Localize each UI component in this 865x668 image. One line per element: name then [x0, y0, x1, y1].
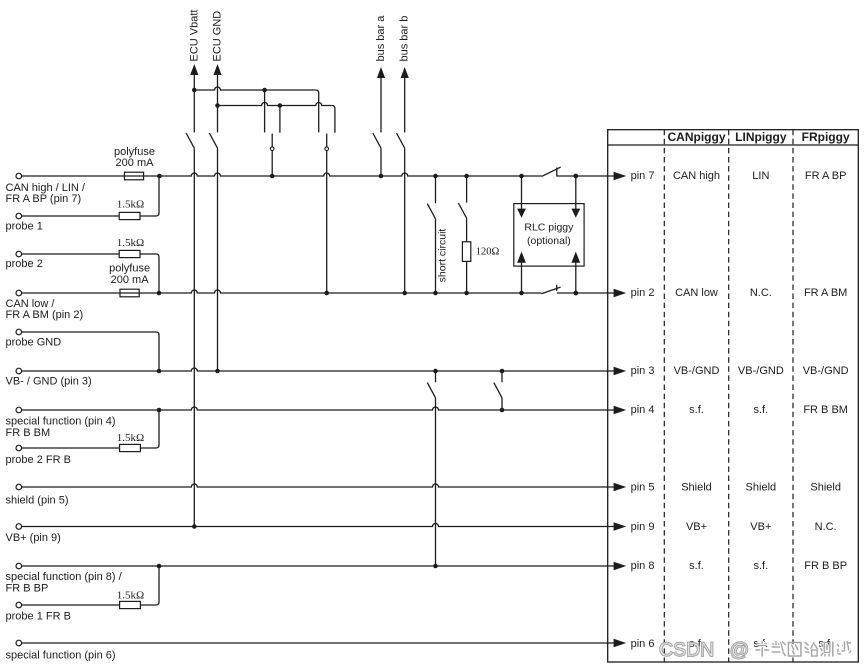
- svg-text:CAN low: CAN low: [675, 287, 718, 299]
- svg-text:s.f.: s.f.: [689, 560, 704, 572]
- svg-text:VB+ (pin 9): VB+ (pin 9): [6, 532, 61, 544]
- svg-text:special function (pin 8) /: special function (pin 8) /: [6, 571, 123, 583]
- svg-text:special function (pin 6): special function (pin 6): [6, 650, 116, 662]
- svg-text:@: @: [730, 639, 750, 661]
- svg-text:VB+: VB+: [750, 521, 771, 533]
- svg-text:bus bar b: bus bar b: [399, 16, 411, 62]
- svg-text:ECU Vbatt: ECU Vbatt: [188, 10, 200, 62]
- svg-text:N.C.: N.C.: [815, 521, 837, 533]
- svg-text:ECU GND: ECU GND: [212, 11, 224, 62]
- svg-text:probe 1: probe 1: [6, 220, 43, 232]
- svg-text:s.f.: s.f.: [689, 404, 704, 416]
- svg-text:200 mA: 200 mA: [111, 274, 150, 286]
- svg-text:s.f.: s.f.: [754, 404, 769, 416]
- svg-text:1.5kΩ: 1.5kΩ: [117, 237, 144, 249]
- svg-text:pin 9: pin 9: [631, 521, 655, 533]
- svg-text:pin 5: pin 5: [631, 482, 655, 494]
- svg-text:probe GND: probe GND: [6, 337, 62, 349]
- svg-text:VB-/GND: VB-/GND: [674, 365, 720, 377]
- svg-text:polyfuse: polyfuse: [114, 146, 155, 158]
- svg-text:LIN: LIN: [752, 170, 769, 182]
- svg-text:200 mA: 200 mA: [116, 157, 155, 169]
- svg-text:LINpiggy: LINpiggy: [735, 130, 787, 144]
- svg-text:FR A BP (pin 7): FR A BP (pin 7): [6, 193, 82, 205]
- svg-text:probe 1 FR B: probe 1 FR B: [6, 611, 71, 623]
- svg-text:VB+: VB+: [686, 521, 707, 533]
- svg-text:FR A BM (pin 2): FR A BM (pin 2): [6, 309, 84, 321]
- svg-text:N.C.: N.C.: [750, 287, 772, 299]
- svg-text:pin 2: pin 2: [631, 287, 655, 299]
- svg-text:(optional): (optional): [527, 235, 571, 247]
- svg-text:1.5kΩ: 1.5kΩ: [117, 432, 144, 444]
- svg-text:120Ω: 120Ω: [476, 246, 500, 257]
- svg-text:CSDN: CSDN: [659, 639, 714, 661]
- svg-text:Shield: Shield: [810, 482, 841, 494]
- svg-text:Shield: Shield: [746, 482, 777, 494]
- svg-text:VB-/GND: VB-/GND: [738, 365, 784, 377]
- svg-text:s.f.: s.f.: [754, 560, 769, 572]
- svg-text:FR B BP: FR B BP: [6, 582, 49, 594]
- svg-text:bus bar a: bus bar a: [375, 15, 387, 62]
- svg-text:FR A BM: FR A BM: [804, 287, 847, 299]
- svg-text:short circuit: short circuit: [437, 229, 449, 283]
- svg-text:Shield: Shield: [681, 482, 712, 494]
- svg-text:probe 2: probe 2: [6, 258, 43, 270]
- svg-text:pin 8: pin 8: [631, 560, 655, 572]
- svg-text:FR B BP: FR B BP: [804, 560, 847, 572]
- svg-text:FR B BM: FR B BM: [803, 404, 848, 416]
- svg-text:pin 3: pin 3: [631, 365, 655, 377]
- svg-text:CANpiggy: CANpiggy: [668, 130, 726, 144]
- svg-text:probe 2 FR B: probe 2 FR B: [6, 454, 71, 466]
- svg-text:polyfuse: polyfuse: [109, 263, 150, 275]
- svg-text:shield (pin 5): shield (pin 5): [6, 494, 69, 506]
- svg-text:FR B BM: FR B BM: [6, 427, 51, 439]
- svg-text:RLC piggy: RLC piggy: [524, 221, 574, 233]
- svg-text:pin 6: pin 6: [631, 638, 655, 650]
- svg-text:1.5kΩ: 1.5kΩ: [117, 199, 144, 211]
- svg-text:FR A BP: FR A BP: [805, 170, 847, 182]
- svg-text:FRpiggy: FRpiggy: [802, 130, 850, 144]
- svg-text:VB- / GND (pin 3): VB- / GND (pin 3): [6, 376, 92, 388]
- svg-text:1.5kΩ: 1.5kΩ: [117, 589, 144, 601]
- svg-text:pin 7: pin 7: [631, 170, 655, 182]
- svg-text:pin 4: pin 4: [631, 404, 655, 416]
- svg-text:VB-/GND: VB-/GND: [803, 365, 849, 377]
- svg-text:CAN high: CAN high: [673, 170, 720, 182]
